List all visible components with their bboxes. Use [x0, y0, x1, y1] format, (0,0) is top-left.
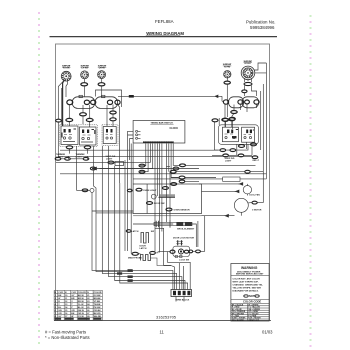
svg-text:DOOR SW: DOOR SW	[154, 203, 166, 205]
svg-text:RT FRT: RT FRT	[224, 66, 231, 68]
svg-text:YL-W: YL-W	[78, 304, 85, 306]
svg-text:BK-RD: BK-RD	[94, 313, 101, 315]
svg-text:WIRING DIAGRAM: WIRING DIAGRAM	[146, 31, 184, 36]
svg-text:11: 11	[160, 330, 165, 335]
svg-text:LF RR: LF RR	[82, 68, 89, 70]
svg-text:OR-BK: OR-BK	[94, 310, 102, 312]
svg-text:DOOR LOCK MOTOR: DOOR LOCK MOTOR	[173, 237, 194, 239]
svg-text:GY-W: GY-W	[78, 316, 85, 318]
svg-text:TERM BLOCK: TERM BLOCK	[175, 299, 189, 301]
svg-text:WARNING: WARNING	[241, 266, 258, 270]
svg-text:GN-W: GN-W	[78, 310, 85, 312]
svg-text:CLR: CLR	[71, 292, 76, 294]
svg-text:WITH LAST STRIPE SUF-: WITH LAST STRIPE SUF-	[233, 281, 259, 284]
svg-text:* = Non-Illustrated Parts: * = Non-Illustrated Parts	[45, 335, 90, 340]
svg-text:RT FRT: RT FRT	[245, 63, 252, 65]
svg-text:COLOR: COLOR	[78, 292, 86, 294]
svg-text:OR-W: OR-W	[78, 313, 85, 315]
svg-text:OVEN LIGHT: OVEN LIGHT	[143, 190, 157, 192]
svg-text:LIGHT: LIGHT	[225, 160, 232, 162]
svg-text:COOL FAN: COOL FAN	[249, 194, 260, 197]
svg-text:OR: OR	[71, 310, 75, 312]
svg-text:# MOTOR: # MOTOR	[252, 210, 262, 212]
svg-text:DIAGRAM FOR DETAILS.: DIAGRAM FOR DETAILS.	[233, 290, 259, 293]
svg-text:FEFL88A: FEFL88A	[155, 19, 174, 24]
svg-text:LIGHT: LIGHT	[106, 158, 113, 160]
svg-text:VT-BK: VT-BK	[94, 301, 101, 303]
svg-text:BR: BR	[71, 298, 75, 300]
svg-text:GRAY: GRAY	[249, 319, 255, 322]
svg-text:CLOCK: CLOCK	[170, 127, 179, 130]
svg-text:WH-RD: WH-RD	[94, 316, 102, 318]
svg-text:GN: GN	[58, 310, 62, 312]
svg-text:RD-W: RD-W	[78, 301, 85, 303]
svg-text:GY: GY	[71, 295, 75, 297]
svg-text:LF FRT: LF FRT	[99, 68, 106, 70]
svg-text:OR: OR	[58, 313, 62, 315]
svg-text:8: 8	[55, 316, 57, 318]
svg-text:GY-BK: GY-BK	[94, 295, 101, 297]
svg-text:GY = BLACK: GY = BLACK	[232, 319, 244, 322]
svg-text:LATCH: LATCH	[132, 230, 139, 233]
svg-text:BK: BK	[71, 313, 75, 315]
svg-text:TN-BK: TN-BK	[94, 304, 101, 306]
svg-text:28: 28	[87, 316, 90, 318]
svg-text:LOCK SW: LOCK SW	[179, 259, 189, 261]
svg-text:LATCH: LATCH	[140, 247, 147, 250]
svg-text:BK: BK	[58, 295, 62, 297]
svg-text:BK-W: BK-W	[78, 295, 85, 297]
svg-text:YELLOW STRIPE. SEE WIR: YELLOW STRIPE. SEE WIR	[233, 288, 262, 290]
svg-text:W: W	[71, 316, 74, 318]
svg-text:COLOR: COLOR	[94, 292, 102, 294]
svg-text:01/03: 01/03	[262, 330, 273, 335]
svg-text:OVEN SENSOR: OVEN SENSOR	[174, 210, 190, 212]
svg-text:CHANGED: GREEN AND YEL: CHANGED: GREEN AND YEL	[233, 284, 264, 287]
svg-text:IND LT: IND LT	[253, 160, 260, 162]
svg-text:COLOR KEY: ANY COLOR: COLOR KEY: ANY COLOR	[233, 278, 261, 281]
svg-text:SW: SW	[151, 231, 154, 233]
svg-text:BROIL ELEMENT: BROIL ELEMENT	[177, 228, 195, 230]
svg-text:CLR: CLR	[58, 292, 63, 294]
svg-text:Publication No.: Publication No.	[246, 20, 276, 25]
svg-text:COLOR CODE: COLOR CODE	[243, 300, 261, 304]
svg-text:5995384996: 5995384996	[250, 25, 275, 30]
svg-text:17: 17	[65, 316, 68, 318]
svg-text:BR-BK: BR-BK	[94, 298, 101, 300]
svg-text:# = Fast-moving Parts: # = Fast-moving Parts	[45, 330, 86, 335]
svg-text:BR-W: BR-W	[78, 298, 85, 300]
svg-text:316253705: 316253705	[156, 315, 177, 320]
svg-text:RT RR: RT RR	[63, 68, 70, 70]
svg-text:GY: GY	[58, 316, 62, 318]
svg-text:BL-W: BL-W	[78, 307, 85, 309]
svg-text:PK-BK: PK-BK	[94, 307, 101, 309]
